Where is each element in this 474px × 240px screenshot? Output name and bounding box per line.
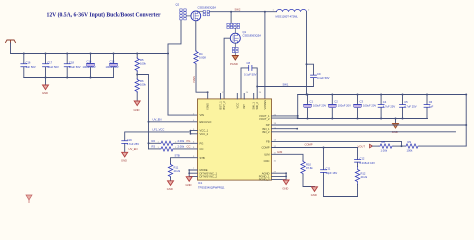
svg-text:EN/UVLO: EN/UVLO — [200, 120, 212, 124]
svg-text:2.00k: 2.00k — [178, 145, 185, 149]
svg-text:SW_1: SW_1 — [252, 102, 256, 110]
node comp junction — [323, 147, 325, 149]
svg-text:0.1uF 50V: 0.1uF 50V — [244, 73, 257, 77]
capacitor C17 — [43, 54, 60, 78]
svg-text:0.1uF 50V: 0.1uF 50V — [317, 76, 330, 80]
capacitor C1 (polarized) — [304, 95, 327, 119]
svg-text:1uF: 1uF — [429, 105, 434, 109]
resistor R8 (feedback top) — [379, 140, 402, 152]
resistor R9 (feedback bottom) — [402, 140, 467, 152]
svg-text:C9: C9 — [317, 72, 321, 76]
VIN power symbol — [6, 40, 16, 43]
svg-text:PG: PG — [200, 141, 204, 145]
svg-text:C18: C18 — [69, 61, 74, 65]
svg-text:40.2k: 40.2k — [174, 169, 181, 173]
svg-text:SW_2: SW_2 — [255, 102, 259, 110]
wire switch-node top rail — [210, 7, 277, 11]
capacitor C6 — [424, 95, 434, 119]
power ground under Q1 — [230, 56, 238, 66]
svg-text:BST_1: BST_1 — [219, 101, 223, 110]
resistor R4 (current sense) — [194, 51, 206, 65]
svg-text:4.7uF 25V: 4.7uF 25V — [383, 105, 396, 109]
svg-text:100k: 100k — [140, 83, 146, 87]
wire ILIM from IC — [272, 150, 304, 160]
svg-text:0.015uF 16V: 0.015uF 16V — [360, 161, 376, 165]
node FB junction — [401, 145, 403, 147]
wire VIN rail — [11, 43, 169, 54]
wire output top rail — [298, 94, 467, 96]
svg-text:CC: CC — [200, 147, 204, 151]
svg-text:COMP: COMP — [261, 146, 269, 150]
node dots (output) — [296, 94, 467, 130]
svg-text:FB: FB — [266, 140, 270, 144]
svg-text:NP: NP — [266, 123, 270, 127]
capacitor C13 (polarized) — [106, 54, 119, 78]
ground under C19 — [121, 152, 128, 162]
svg-text:C6: C6 — [429, 100, 433, 104]
svg-text:TPS55340QPWPRQ1: TPS55340QPWPRQ1 — [198, 185, 225, 189]
svg-text:C8: C8 — [247, 61, 251, 65]
svg-text:VOUT: VOUT — [358, 145, 366, 149]
wire R4 to IC top — [196, 65, 208, 99]
wire L1 right vertical to output rail — [306, 12, 308, 95]
svg-text:ILIM: ILIM — [277, 150, 283, 154]
svg-text:10uF 50V: 10uF 50V — [69, 65, 81, 69]
capacitor C18 — [64, 54, 81, 78]
wire COMP from IC — [272, 143, 358, 148]
svg-text:C3: C3 — [360, 99, 364, 103]
svg-text:VOUT_2: VOUT_2 — [259, 117, 270, 121]
svg-text:C19: C19 — [127, 138, 132, 142]
svg-text:Q1: Q1 — [243, 30, 247, 34]
capacitor C4 — [378, 95, 395, 119]
svg-text:R12: R12 — [361, 171, 366, 175]
IC right pin names — [259, 114, 271, 182]
net flag VOUT (feedback sense) — [358, 144, 380, 148]
svg-text:R6: R6 — [140, 79, 144, 83]
svg-text:R4: R4 — [199, 52, 203, 56]
svg-text:COMP: COMP — [305, 143, 313, 147]
wire comp bottom rail — [324, 196, 358, 198]
svg-text:12V (0.5A, 6-36V Input) Buck/B: 12V (0.5A, 6-36V Input) Buck/Boost Conve… — [47, 11, 161, 18]
svg-text:MSS1260T-472ML: MSS1260T-472ML — [276, 14, 299, 18]
ground under divider — [134, 101, 141, 112]
resistor R2 (PG pull) — [149, 139, 198, 145]
svg-text:100uF 50V: 100uF 50V — [83, 65, 96, 69]
wire input cap bottom rail — [24, 77, 114, 79]
svg-text:100k: 100k — [407, 148, 413, 152]
svg-text:GND: GND — [121, 159, 127, 163]
svg-text:2.00k: 2.00k — [178, 139, 185, 143]
svg-text:4.7uF 25V: 4.7uF 25V — [127, 142, 140, 146]
ground under input caps — [42, 78, 49, 96]
wire current-sense long run 2 — [272, 129, 456, 132]
capacitor C11 (comp high-freq) — [321, 148, 338, 197]
svg-text:ISNS: ISNS — [192, 76, 196, 82]
capacitor C8 (bootstrap) — [241, 61, 257, 99]
capacitor C14 (polarized) — [83, 54, 96, 78]
capacitor C12 (comp series C) — [355, 148, 376, 167]
svg-text:SW1: SW1 — [283, 82, 289, 86]
inductor L1 — [273, 9, 311, 18]
ground under R11 — [167, 181, 174, 191]
svg-text:LF1_VCC: LF1_VCC — [153, 128, 165, 132]
svg-text:VCC_2: VCC_2 — [200, 132, 209, 136]
svg-text:C14: C14 — [87, 60, 92, 64]
svg-text:Q2: Q2 — [176, 3, 180, 7]
wire FB from IC — [272, 141, 402, 146]
wire output bottom rail — [298, 118, 428, 120]
wire VIN vertical to IC VIN pin — [168, 20, 181, 115]
svg-text:STB: STB — [175, 154, 180, 158]
svg-text:CSD18563Q5A: CSD18563Q5A — [198, 6, 217, 10]
wire AGND/PGND pins to ground — [272, 172, 288, 180]
svg-text:C4: C4 — [383, 100, 387, 104]
svg-text:40.2k: 40.2k — [361, 175, 368, 179]
svg-text:100uF 20V: 100uF 20V — [338, 104, 351, 108]
svg-text:VIN: VIN — [200, 113, 205, 117]
ground under AGND/PGND — [282, 180, 289, 190]
svg-text:UV_EN: UV_EN — [129, 147, 138, 151]
transistor Q1 — [227, 12, 261, 56]
svg-text:GND: GND — [134, 108, 140, 112]
svg-text:VCC: VCC — [235, 103, 239, 109]
resistor R3 (UV_EN series) — [129, 145, 198, 151]
svg-text:UV_EN: UV_EN — [153, 118, 162, 122]
svg-text:R8: R8 — [382, 140, 386, 144]
svg-text:CC: CC — [187, 145, 191, 149]
svg-text:CSD18563Q5A: CSD18563Q5A — [243, 34, 262, 38]
resistor R10 (ILIM) — [301, 161, 315, 187]
capacitor C9 (snubber) — [257, 64, 329, 86]
svg-text:VOSNS: VOSNS — [263, 100, 267, 110]
transistor Q2 — [176, 3, 217, 21]
svg-text:R3: R3 — [152, 145, 156, 149]
svg-text:C16: C16 — [26, 61, 31, 65]
svg-text:PG: PG — [187, 139, 191, 143]
resistor R12 (comp series R) — [355, 167, 367, 197]
svg-text:10pF 16V: 10pF 16V — [326, 171, 338, 175]
wire UV_EN route — [137, 75, 148, 149]
svg-text:100uF 20V: 100uF 20V — [313, 104, 326, 108]
wire MODE/DITH pins to ground — [188, 169, 197, 176]
svg-text:PGND: PGND — [230, 62, 238, 66]
svg-text:R11: R11 — [174, 165, 179, 169]
wire current-sense long run 1 — [272, 124, 467, 126]
svg-text:C12: C12 — [360, 157, 365, 161]
svg-text:INT: INT — [242, 104, 246, 109]
wire SW node to IC (vertical x264.4) — [264, 12, 266, 99]
svg-text:GND: GND — [42, 91, 48, 95]
resistor R6 (bottom of UVLO divider) — [135, 75, 146, 101]
svg-text:DITH/SYNC_2: DITH/SYNC_2 — [200, 175, 218, 179]
node dots (switch area) — [207, 11, 308, 93]
svg-text:C11: C11 — [326, 167, 331, 171]
wire STB to IC — [171, 154, 198, 164]
node dots VCC — [190, 130, 192, 135]
svg-text:4.7uF 25V: 4.7uF 25V — [404, 105, 417, 109]
svg-text:ILIM: ILIM — [264, 152, 270, 156]
capacitor C19 (VCC bypass) — [122, 128, 198, 152]
resistor R11 (STB) — [168, 164, 180, 181]
svg-text:CDC: CDC — [264, 159, 270, 163]
svg-text:SW2: SW2 — [235, 7, 241, 11]
svg-text:100uF 50V: 100uF 50V — [106, 65, 119, 69]
IC left pin names — [200, 113, 218, 178]
svg-text:IC1: IC1 — [198, 181, 203, 185]
svg-text:PGND_2: PGND_2 — [259, 178, 270, 182]
svg-text:GND: GND — [186, 183, 192, 187]
wire EN/UVLO to IC — [149, 118, 198, 122]
ground at output caps — [392, 119, 399, 134]
svg-text:STB: STB — [200, 156, 205, 160]
wire right edge vertical — [465, 95, 467, 147]
svg-text:R10: R10 — [306, 163, 311, 167]
wire Q2 source sense chain — [195, 21, 197, 51]
op-amp U1 main converter IC body — [198, 99, 272, 189]
svg-text:BST_2: BST_2 — [222, 101, 226, 110]
wire Q1 gate from IC — [224, 38, 230, 99]
svg-text:0.008: 0.008 — [199, 56, 206, 60]
IC top stub pins — [221, 94, 254, 99]
node junction dots (left) — [23, 53, 169, 145]
ground comp area — [311, 187, 318, 197]
capacitor C3 (polarized) — [354, 95, 377, 119]
svg-text:ISNS: ISNS — [206, 103, 210, 109]
ground under MODE/DITH — [186, 177, 193, 187]
svg-text:R2: R2 — [152, 139, 156, 143]
svg-text:R5: R5 — [140, 58, 144, 62]
resistor R5 (top of UVLO divider) — [135, 54, 146, 75]
svg-text:C13: C13 — [110, 60, 115, 64]
pin numbers — [193, 92, 277, 173]
svg-text:R9: R9 — [408, 140, 412, 144]
svg-text:10uF 50V: 10uF 50V — [47, 65, 59, 69]
capacitor C16 — [21, 54, 36, 78]
svg-text:1.00k: 1.00k — [381, 148, 388, 152]
svg-text:GND: GND — [167, 187, 173, 191]
svg-text:ISN_2: ISN_2 — [262, 130, 270, 134]
wire VOUT pins to output rail — [272, 95, 298, 119]
svg-text:GND: GND — [311, 193, 317, 197]
svg-text:C5: C5 — [404, 100, 408, 104]
IC top pin names (rotated) — [206, 100, 267, 110]
capacitor C5 — [400, 95, 417, 119]
ground bottom-left page mark — [26, 195, 32, 204]
capacitor C2 (polarized) — [328, 95, 351, 119]
svg-text:C2: C2 — [334, 99, 338, 103]
svg-text:97.6k: 97.6k — [306, 166, 313, 170]
svg-text:C1: C1 — [310, 99, 314, 103]
svg-text:100k: 100k — [140, 62, 146, 66]
svg-text:GND: GND — [282, 186, 288, 190]
svg-text:100uF 20V: 100uF 20V — [363, 104, 376, 108]
svg-text:C17: C17 — [47, 61, 52, 65]
svg-text:1uF 50V: 1uF 50V — [26, 65, 36, 69]
